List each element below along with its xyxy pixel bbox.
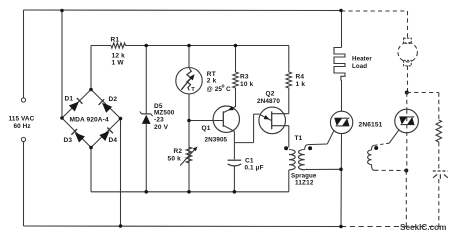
svg-text:D1: D1	[65, 96, 74, 103]
svg-text:Sprague: Sprague	[291, 173, 317, 180]
svg-text:Q2: Q2	[266, 91, 275, 98]
svg-text:2 k: 2 k	[207, 78, 217, 85]
svg-text:2N4870: 2N4870	[257, 98, 280, 105]
svg-text:Q1: Q1	[202, 125, 211, 132]
svg-text:C1: C1	[245, 158, 254, 165]
svg-text:1 W: 1 W	[112, 60, 125, 67]
svg-text:12 k: 12 k	[112, 53, 126, 60]
svg-text:20 V: 20 V	[154, 124, 169, 131]
svg-text:115 VAC: 115 VAC	[9, 116, 35, 123]
svg-text:2N3905: 2N3905	[205, 137, 228, 144]
svg-text:-23: -23	[154, 117, 164, 124]
svg-text:10 k: 10 k	[240, 81, 254, 88]
svg-text:2N6151: 2N6151	[359, 122, 383, 129]
svg-text:D3: D3	[64, 137, 73, 144]
svg-text:D4: D4	[109, 137, 118, 144]
svg-text:@ 25: @ 25	[207, 86, 223, 93]
svg-text:11Z12: 11Z12	[295, 180, 314, 187]
svg-text:1 k: 1 k	[296, 81, 306, 88]
svg-text:MZ500: MZ500	[154, 110, 175, 117]
svg-text:o: o	[222, 84, 225, 90]
svg-text:C: C	[226, 86, 231, 93]
svg-text:T1: T1	[295, 135, 303, 142]
svg-text:50 k: 50 k	[168, 156, 182, 163]
svg-text:Heater: Heater	[352, 56, 372, 63]
svg-text:SeekIC.com: SeekIC.com	[400, 223, 446, 232]
svg-text:T: T	[191, 87, 195, 93]
svg-text:R4: R4	[296, 74, 305, 81]
svg-text:MDA 920A-4: MDA 920A-4	[70, 117, 109, 124]
svg-text:Load: Load	[352, 63, 367, 70]
svg-text:0.1 μF: 0.1 μF	[245, 165, 264, 172]
svg-text:R3: R3	[240, 74, 249, 81]
svg-text:60 Hz: 60 Hz	[14, 123, 31, 130]
svg-text:R1: R1	[111, 37, 120, 44]
svg-text:R2: R2	[174, 148, 183, 155]
svg-text:D2: D2	[109, 96, 118, 103]
